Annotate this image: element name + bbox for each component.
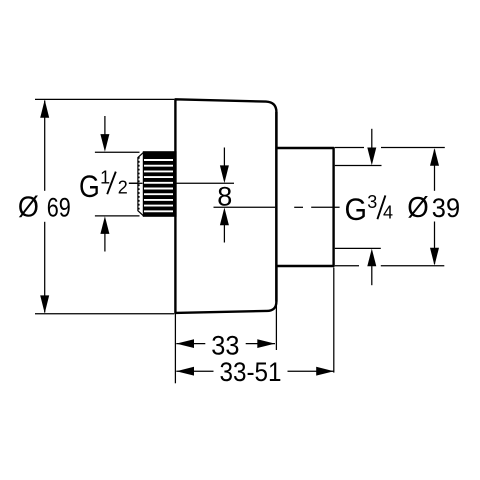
svg-text:33: 33	[211, 330, 239, 360]
svg-text:Ø: Ø	[407, 192, 429, 224]
svg-text:69: 69	[47, 193, 71, 223]
svg-text:Ø: Ø	[18, 192, 39, 224]
svg-text:39: 39	[432, 193, 460, 223]
svg-text:1: 1	[100, 167, 110, 187]
svg-text:G: G	[345, 191, 368, 227]
svg-text:33-51: 33-51	[220, 357, 282, 387]
svg-text:G: G	[79, 168, 100, 204]
svg-text:2: 2	[118, 177, 128, 197]
svg-text:8: 8	[217, 182, 232, 212]
svg-text:4: 4	[383, 202, 393, 222]
svg-text:3: 3	[367, 192, 377, 212]
